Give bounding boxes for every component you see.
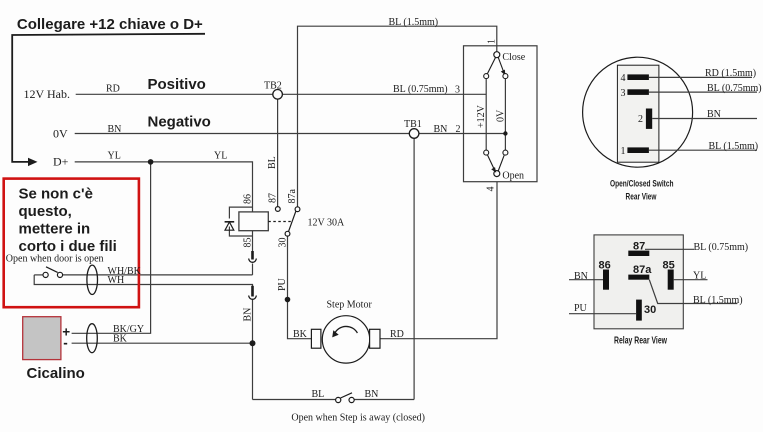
wire RD motor to switch box pin 4 bbox=[380, 182, 497, 339]
connector (bullet) on 85 wire bbox=[249, 251, 257, 262]
svg-text:+12V: +12V bbox=[476, 104, 487, 128]
relay pin 86 bar bbox=[603, 270, 609, 290]
relay pin 87 bar bbox=[628, 251, 649, 256]
motor brush right bbox=[370, 329, 380, 348]
svg-text:12V Hab.: 12V Hab. bbox=[24, 87, 70, 101]
terminal TB1 bbox=[409, 129, 419, 139]
wire RD / positive rail bbox=[76, 93, 487, 95]
svg-text:BN: BN bbox=[434, 124, 448, 135]
svg-text:Step Motor: Step Motor bbox=[327, 300, 373, 311]
svg-text:3: 3 bbox=[621, 88, 626, 99]
underline and arrow bracket from note to D+ bbox=[12, 34, 205, 162]
cable ellipse lower bbox=[87, 324, 98, 353]
svg-text:4: 4 bbox=[621, 73, 626, 84]
pin 4 bar bbox=[627, 74, 649, 80]
wire BL 1.5 from 87a (diagonal) bbox=[649, 280, 737, 304]
svg-text:BL (1.5mm): BL (1.5mm) bbox=[389, 17, 439, 28]
close arm bbox=[488, 58, 496, 74]
svg-text:12V 30A: 12V 30A bbox=[308, 218, 346, 229]
terminal TB2 bbox=[273, 90, 283, 100]
svg-text:BN: BN bbox=[707, 109, 721, 120]
svg-text:BL (1.5mm): BL (1.5mm) bbox=[709, 141, 759, 152]
+12V bottom contact bbox=[484, 150, 489, 155]
pin 3 wire bbox=[649, 91, 757, 93]
motor rotation arrow bbox=[335, 326, 358, 333]
0V top contact bbox=[503, 74, 508, 79]
junction dot D+ / BKGY bbox=[148, 159, 154, 165]
svg-text:Negativo: Negativo bbox=[148, 114, 211, 131]
wire PU to 30 bbox=[569, 313, 636, 315]
svg-text:2: 2 bbox=[638, 114, 643, 125]
wire BN below second connector down to bottom loop bbox=[252, 299, 254, 399]
dashed actuator line bbox=[268, 221, 293, 223]
wire connector to WH/BK corner bbox=[252, 264, 254, 275]
svg-text:Cicalino: Cicalino bbox=[27, 365, 85, 382]
arrowhead at D+ bbox=[28, 158, 38, 166]
svg-text:1: 1 bbox=[621, 146, 626, 157]
svg-text:WH: WH bbox=[108, 275, 125, 286]
pin 1 wire bbox=[649, 149, 757, 151]
svg-text:87a: 87a bbox=[287, 189, 298, 204]
wire BL 0.75 from 87 bbox=[645, 248, 694, 250]
connector (bullet) on WH/BN wire bbox=[249, 286, 257, 299]
pin 1 bar bbox=[627, 147, 649, 153]
open contact bottom bbox=[494, 171, 500, 177]
rear view circle bbox=[583, 57, 693, 167]
junction dot BK/BN bbox=[250, 340, 256, 346]
svg-text:3: 3 bbox=[455, 84, 460, 95]
wire BK/GY buzzer plus up to D+ bbox=[72, 162, 151, 333]
wire WH/BK from door switch to relay bbox=[63, 274, 253, 276]
open arm right bbox=[498, 155, 504, 171]
door switch arm bbox=[46, 267, 58, 273]
svg-text:PU: PU bbox=[574, 303, 588, 314]
svg-text:BN: BN bbox=[108, 124, 122, 135]
svg-text:BN: BN bbox=[243, 308, 254, 322]
wire YL D+ run to relay coil 86 bbox=[75, 162, 253, 212]
svg-text:-: - bbox=[63, 336, 67, 351]
relay pin 30 bar bbox=[636, 300, 642, 321]
wire BN / negative rail bbox=[75, 133, 506, 135]
door switch S1 circles bbox=[43, 272, 48, 277]
svg-text:YL: YL bbox=[108, 151, 121, 162]
pin 2 wire bbox=[652, 118, 757, 120]
svg-text:Open when door is open: Open when door is open bbox=[6, 254, 104, 265]
svg-text:BL (0.75mm): BL (0.75mm) bbox=[694, 242, 749, 253]
svg-text:RD (1.5mm): RD (1.5mm) bbox=[705, 68, 756, 79]
wire BN to 86 bbox=[569, 279, 603, 281]
relay pin 87a bar bbox=[628, 275, 649, 280]
pin 2 bar bbox=[646, 109, 652, 129]
svg-text:Positivo: Positivo bbox=[148, 76, 206, 93]
red annotation box bbox=[4, 179, 139, 308]
svg-text:2: 2 bbox=[456, 124, 461, 135]
close contact top bbox=[494, 52, 500, 58]
motor brush left bbox=[311, 329, 321, 348]
step motor M1 body bbox=[322, 316, 369, 363]
wire YL from 85 bbox=[674, 279, 708, 281]
step switch arm bbox=[341, 393, 353, 398]
diode D1 (bar + triangle) bbox=[225, 221, 235, 223]
svg-text:30: 30 bbox=[644, 304, 656, 316]
relay contact 87a bbox=[295, 207, 300, 212]
relay coil K1 bbox=[239, 212, 268, 231]
svg-text:BL: BL bbox=[267, 156, 278, 169]
relay contact 87 bbox=[275, 207, 280, 212]
wire WH lower run bbox=[34, 275, 252, 286]
wire relay 85 down to connector bbox=[252, 231, 254, 252]
svg-text:Se non c'è: Se non c'è bbox=[19, 186, 93, 203]
svg-text:BL (0.75mm): BL (0.75mm) bbox=[707, 83, 762, 94]
junction dot pin2/0V bbox=[503, 131, 507, 135]
svg-text:1: 1 bbox=[487, 39, 498, 44]
svg-text:86: 86 bbox=[243, 194, 254, 204]
0V bottom contact bbox=[503, 150, 508, 155]
svg-text:Open/Closed Switch: Open/Closed Switch bbox=[610, 179, 674, 190]
svg-text:questo,: questo, bbox=[19, 203, 72, 220]
relay contact 30 bbox=[285, 231, 290, 236]
svg-text:YL: YL bbox=[214, 151, 227, 162]
svg-text:BN: BN bbox=[365, 389, 379, 400]
svg-text:BL (0.75mm): BL (0.75mm) bbox=[393, 84, 448, 95]
svg-text:30: 30 bbox=[278, 238, 289, 248]
step switch circles bbox=[336, 397, 341, 402]
buzzer body bbox=[23, 317, 61, 360]
wire bottom loop right bbox=[354, 399, 414, 401]
wire bottom loop left + step switch stub bbox=[253, 399, 336, 401]
svg-text:RD: RD bbox=[106, 84, 120, 95]
wire 30 down / PU to motor BK bbox=[288, 236, 312, 339]
svg-text:Open: Open bbox=[502, 171, 524, 182]
svg-text:RD: RD bbox=[390, 329, 404, 340]
wire door switch left stub bbox=[34, 274, 43, 276]
+12V vertical bbox=[485, 79, 487, 151]
svg-text:D+: D+ bbox=[53, 155, 69, 169]
relay contact arm 30 to 87a bbox=[289, 211, 296, 231]
svg-text:Rear View: Rear View bbox=[626, 192, 657, 203]
svg-text:corto i due fili: corto i due fili bbox=[19, 238, 117, 255]
svg-text:Open when Step is away (closed: Open when Step is away (closed) bbox=[291, 413, 425, 424]
0V vertical bbox=[504, 79, 506, 151]
wire BK from buzzer minus bbox=[72, 342, 253, 344]
svg-text:BL (1.5mm): BL (1.5mm) bbox=[693, 295, 743, 306]
cable ellipse upper bbox=[87, 265, 98, 294]
svg-text:BN: BN bbox=[574, 271, 588, 282]
svg-text:87a: 87a bbox=[633, 264, 652, 276]
svg-text:PU: PU bbox=[277, 277, 288, 291]
svg-text:85: 85 bbox=[243, 238, 254, 248]
svg-text:BK: BK bbox=[113, 334, 128, 345]
pin 3 bar bbox=[627, 89, 649, 95]
wire BL(1.5mm) top run: 87a up and over to switch box pin 1 bbox=[298, 26, 497, 207]
diode branch wires bbox=[229, 207, 252, 236]
rear view connector body bbox=[617, 65, 659, 162]
svg-text:mettere in: mettere in bbox=[19, 221, 91, 238]
junction dot PU bbox=[285, 297, 291, 303]
relay pin 85 bar bbox=[668, 270, 674, 290]
close arm to 0V with arrow bbox=[498, 57, 504, 73]
+12V top contact bbox=[484, 74, 489, 79]
svg-text:BL: BL bbox=[312, 389, 325, 400]
svg-text:BK: BK bbox=[293, 329, 308, 340]
pin 4 wire bbox=[649, 76, 752, 78]
svg-text:Close: Close bbox=[502, 52, 525, 63]
wire BL from TB2 down to relay 87 bbox=[277, 99, 279, 207]
svg-text:YL: YL bbox=[693, 271, 706, 282]
relay rear body bbox=[594, 235, 683, 329]
open arm from +12V with arrow bbox=[488, 155, 495, 171]
svg-text:Collegare +12 chiave o D+: Collegare +12 chiave o D+ bbox=[17, 16, 203, 33]
svg-text:4: 4 bbox=[486, 187, 497, 192]
open/close switch box bbox=[464, 46, 538, 182]
svg-text:0V: 0V bbox=[496, 109, 507, 122]
svg-text:Relay Rear View: Relay Rear View bbox=[614, 335, 668, 347]
wire TB1 down to bottom loop bbox=[413, 138, 415, 399]
svg-text:87: 87 bbox=[268, 193, 279, 203]
svg-text:0V: 0V bbox=[53, 127, 68, 141]
